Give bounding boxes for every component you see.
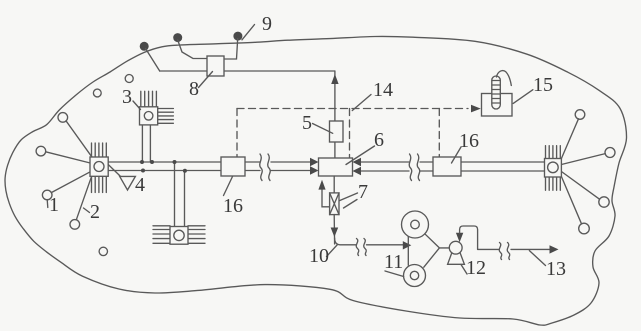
pump unit 11: motor circle bbox=[402, 211, 429, 238]
belt/connection lines of pump unit bbox=[408, 234, 449, 267]
lower sprinkler comb right bbox=[188, 226, 205, 244]
right sprinkler body bbox=[545, 159, 562, 178]
line 10 horizontal run bbox=[335, 238, 403, 245]
leader line 16 right bbox=[452, 147, 462, 163]
svg-text:9: 9 bbox=[262, 13, 272, 35]
suction arrow into pump 12 bbox=[456, 233, 463, 242]
svg-text:5: 5 bbox=[302, 112, 312, 134]
emitter circle (top-left) bbox=[58, 113, 68, 123]
sprinkler 3 comb right bbox=[158, 109, 174, 124]
line box6 down to valve 7 bbox=[333, 176, 335, 193]
emitter circle (lower-left) bbox=[42, 190, 52, 200]
sprinkler 3 body bbox=[140, 107, 158, 125]
pipe break on line 10 bbox=[356, 239, 366, 256]
emitter circle (left) bbox=[36, 146, 46, 156]
riser pipe from sprinkler 3 to main pipe bbox=[142, 125, 150, 162]
header line to riser corner bbox=[160, 70, 335, 72]
sprinkler unit (right): radiating laterals to emitter circles bbox=[561, 119, 605, 224]
svg-text:3: 3 bbox=[122, 86, 132, 108]
leader line 15 bbox=[513, 90, 533, 104]
sprinkler 2 comb above bbox=[92, 143, 107, 157]
scattered field circle a bbox=[93, 89, 101, 97]
scattered field circle c bbox=[99, 247, 107, 255]
tank 15 hose curl bbox=[497, 71, 512, 86]
leader line 14 bbox=[352, 95, 371, 111]
flow arrows into box 6 from left bbox=[310, 158, 319, 175]
control unit box 6 bbox=[319, 158, 353, 176]
dashed drop to box 6 bbox=[349, 109, 351, 158]
tank 15 hose capsule bbox=[492, 76, 501, 109]
svg-text:8: 8 bbox=[189, 78, 199, 100]
emitter circle (bottom-right) bbox=[579, 223, 590, 234]
filter box 16 (left) bbox=[221, 157, 245, 176]
leader line 7 bbox=[340, 193, 358, 208]
riser from box 6 up to header (with up arrow) bbox=[334, 71, 336, 158]
dashed control line 14 horizontal bbox=[237, 108, 468, 110]
valve 7 bbox=[330, 193, 339, 215]
main pipe right segment (double line) bbox=[361, 162, 545, 171]
svg-text:14: 14 bbox=[373, 79, 393, 101]
hydrant dot A bbox=[140, 42, 149, 51]
pipe break right bbox=[409, 154, 420, 181]
filter box 16 (right) bbox=[433, 157, 461, 176]
leader line 9 bbox=[242, 25, 255, 40]
hydrant dot C bbox=[233, 32, 242, 41]
pump 12 foot bbox=[448, 253, 465, 264]
typical-unit triangle marker (label 4) bbox=[108, 165, 135, 191]
supply line from dot B bbox=[178, 40, 208, 59]
drain line below valve with down arrow bbox=[333, 215, 335, 244]
lower sprinkler body bbox=[170, 227, 188, 245]
control box 8 bbox=[207, 56, 224, 76]
sprinkler unit 3 comb above bbox=[141, 91, 157, 107]
flow arrows into box 6 from right bbox=[353, 158, 362, 175]
svg-text:16: 16 bbox=[223, 195, 243, 217]
svg-text:2: 2 bbox=[90, 201, 100, 223]
svg-text:13: 13 bbox=[546, 258, 566, 280]
emitter circle (lower-right) bbox=[599, 197, 609, 207]
leader line 16 left bbox=[224, 177, 233, 196]
gauge box 5 bbox=[330, 121, 344, 142]
main pipe left segment (double line) bbox=[108, 162, 310, 171]
right sprinkler comb below bbox=[546, 177, 561, 190]
sprinkler 2 comb below bbox=[92, 176, 107, 192]
emitter circle (top-right) bbox=[575, 110, 585, 120]
emitter circle (bottom) bbox=[70, 220, 80, 230]
arrow at end of line 13 bbox=[550, 245, 559, 253]
arrowhead into tank 15 bbox=[471, 105, 481, 113]
sprinkler 2 body bbox=[90, 157, 108, 176]
emitter circle (right) bbox=[605, 148, 615, 158]
svg-text:12: 12 bbox=[466, 257, 486, 279]
scattered field circle b bbox=[125, 75, 133, 83]
svg-text:10: 10 bbox=[309, 245, 329, 267]
pump 12 circle bbox=[449, 241, 462, 254]
supply line from dot A bbox=[146, 49, 160, 72]
pipe break left bbox=[260, 154, 271, 181]
svg-text:6: 6 bbox=[374, 129, 384, 151]
leader line 3 bbox=[133, 101, 141, 110]
svg-text:1: 1 bbox=[49, 194, 59, 216]
junction dots on main pipe bbox=[140, 160, 144, 164]
pipe break on line 13 bbox=[499, 243, 510, 260]
leader line 6 bbox=[346, 146, 375, 165]
delivery line 13 bbox=[478, 248, 550, 250]
svg-text:16: 16 bbox=[459, 130, 479, 152]
svg-text:15: 15 bbox=[533, 74, 553, 96]
leader line 1 bbox=[46, 200, 49, 208]
leader line 5 bbox=[313, 124, 333, 134]
leader line 13 bbox=[529, 251, 545, 266]
leader line 10 bbox=[327, 245, 338, 257]
flow arrow into pump group 11 bbox=[403, 241, 412, 249]
hydrant dot B bbox=[173, 33, 182, 42]
svg-text:4: 4 bbox=[135, 174, 145, 196]
riser pipe from main pipe down to lower sprinkler bbox=[175, 162, 185, 227]
dashed drop to left box 16 bbox=[236, 109, 238, 158]
svg-text:7: 7 bbox=[358, 181, 368, 203]
gooseneck pipe over pump 12 bbox=[460, 226, 478, 249]
leader line 12 bbox=[461, 265, 467, 275]
dashed drop to right box 16 bbox=[438, 109, 440, 157]
leader line 8 bbox=[199, 72, 213, 88]
leader line 11 bbox=[385, 271, 404, 277]
bypass line with up arrow into box 6 bbox=[322, 190, 330, 207]
pump unit 11: pump circle bbox=[404, 265, 426, 287]
svg-text:11: 11 bbox=[384, 251, 403, 273]
sprinkler unit 2 (left): radiating laterals to emitter circles bbox=[46, 121, 93, 220]
fertilizer tank 15 bbox=[482, 94, 513, 117]
supply line from dot C bbox=[224, 39, 238, 60]
lower sprinkler comb left bbox=[153, 226, 170, 244]
leader line 2 bbox=[84, 208, 90, 213]
right sprinkler comb above bbox=[546, 146, 561, 159]
